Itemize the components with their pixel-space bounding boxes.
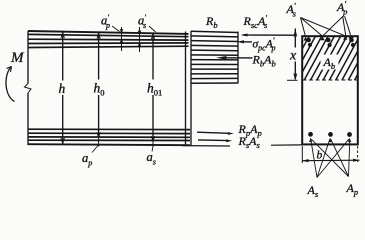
svg-text:a′s: a′s [138, 13, 147, 30]
h0 dim arrowheads [97, 33, 100, 138]
As label leaders [311, 139, 349, 178]
a'_s tick [139, 27, 141, 52]
A's label leaders [301, 18, 346, 37]
bottom bars [308, 132, 352, 137]
Rb Ab force arrow [226, 57, 253, 59]
elevation top band line 2 [28, 34, 189, 36]
svg-text:A′s: A′s [286, 2, 297, 19]
top leader arrowheads [304, 35, 353, 41]
svg-text:M: M [10, 50, 25, 66]
sigma_pc A'p force arrow [240, 41, 252, 43]
Rsc A's force arrow [243, 34, 296, 36]
b dimension extension lines [301, 146, 303, 163]
Rs As force arrow [198, 139, 229, 142]
stress block horizontal hatch [191, 31, 238, 83]
bottom fiber line under stress block [182, 145, 230, 147]
Ab label halo [321, 55, 339, 70]
cross-section rectangle [302, 36, 358, 144]
svg-text:x: x [289, 49, 297, 64]
svg-text:b: b [317, 150, 323, 162]
beam elevation left edge with break symbol [27, 31, 29, 145]
b dimension line [302, 159, 360, 162]
top bars row 1 [306, 38, 354, 43]
h01 dimension line [152, 34, 154, 142]
bottom fiber line to section [271, 144, 302, 146]
h0 dimension line [98, 33, 100, 138]
x dim bottom tick [287, 79, 298, 81]
leader arrowheads bottom bars [309, 138, 351, 143]
elevation bottom band line 4 [28, 139, 190, 141]
x dimension line [294, 29, 296, 80]
h dim arrowheads [61, 33, 64, 144]
elevation top band line 3 [28, 38, 189, 41]
a_s leader [152, 146, 153, 152]
elevation bottom band line 1 [28, 128, 190, 130]
a'_p tick [121, 27, 123, 51]
elevation bottom band line 3 [28, 136, 190, 138]
a_p leader [92, 146, 98, 153]
h dimension line [62, 33, 64, 144]
a_s tick below h01 [152, 142, 154, 148]
compression zone bottom dashed boundary [303, 79, 358, 81]
Ap label leaders [312, 139, 350, 176]
elevation top band line 5 [28, 46, 189, 47]
elevation bottom band line 2 [28, 132, 190, 134]
svg-text:h: h [59, 81, 66, 96]
moment arc arrow [6, 67, 14, 102]
a'_s leader [149, 26, 156, 32]
top bars row 2 [308, 43, 355, 47]
stress block left edge [190, 31, 192, 146]
svg-text:a′p: a′p [101, 13, 110, 30]
elevation top band line 1 (top edge) [28, 31, 189, 34]
a'_p leader [112, 26, 120, 32]
a_p tick below h0 [98, 138, 100, 147]
stress block right edge [237, 32, 239, 84]
elevation top band line 4 [28, 42, 189, 45]
A'p label leaders [323, 17, 351, 37]
elevation bottom band line 5 (bottom edge) [28, 144, 190, 145]
Rp Ap force arrow [197, 132, 230, 133]
h01 dim arrowheads [151, 34, 154, 142]
beam elevation right edge [185, 32, 187, 146]
